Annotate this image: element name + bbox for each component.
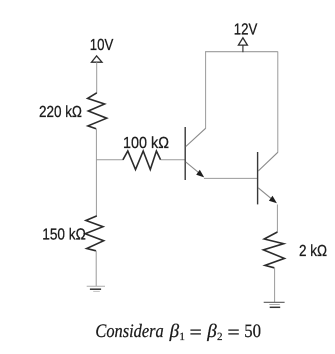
equals sign 2: [228, 330, 239, 334]
equals sign 1: [190, 330, 201, 334]
svg-text:β2: β2: [206, 321, 222, 343]
supply symbol 12V triangle: [238, 38, 247, 45]
wire Q1 emitter to Q2 base: [204, 177, 257, 179]
wire node B to R3: [96, 159, 123, 161]
svg-text:12V: 12V: [234, 21, 258, 38]
wire 10V to R1: [96, 62, 98, 93]
svg-text:220 kΩ: 220 kΩ: [39, 104, 82, 121]
svg-text:50: 50: [244, 321, 261, 342]
wire R3 to Q1 base: [161, 159, 185, 161]
transistor Q2 emitter arrowhead: [269, 196, 277, 204]
svg-text:Considera: Considera: [95, 321, 163, 342]
resistor R1 220 kOhm zigzag: [88, 93, 107, 129]
svg-text:2 kΩ: 2 kΩ: [299, 243, 327, 260]
wire top rail 12V: [205, 51, 278, 53]
svg-text:10V: 10V: [90, 37, 114, 54]
transistor Q2 collector diagonal: [258, 152, 278, 171]
caption Considera beta1 = beta2 = 50: [95, 321, 261, 343]
wire R1 to R2 (node B through junction): [95, 129, 97, 216]
resistor R4 2 kOhm zigzag: [263, 232, 284, 268]
wire 12V stub: [242, 45, 244, 52]
supply symbol 10V triangle: [92, 56, 103, 62]
svg-text:100 kΩ: 100 kΩ: [123, 135, 169, 152]
wire Q2 collector to rail: [277, 52, 279, 153]
wire Q2 emitter to R4: [276, 205, 278, 233]
transistor Q1 emitter arrowhead: [196, 170, 204, 178]
wire Q1 collector to rail: [205, 52, 207, 129]
svg-text:β1: β1: [169, 321, 185, 343]
transistor Q2 emitter diagonal: [258, 188, 273, 201]
transistor Q2 base bar: [257, 152, 259, 204]
ground left: [87, 286, 105, 291]
wire R4 to ground: [274, 268, 276, 302]
transistor Q1 emitter diagonal: [186, 162, 201, 175]
ground right: [264, 302, 285, 307]
svg-text:150 kΩ: 150 kΩ: [42, 226, 86, 243]
transistor Q1 collector diagonal: [186, 128, 206, 146]
wire R2 to ground: [95, 251, 97, 286]
resistor R2 150 kOhm zigzag: [85, 216, 104, 251]
resistor R3 100 kOhm zigzag: [123, 151, 161, 170]
transistor Q1 base bar: [184, 127, 186, 180]
